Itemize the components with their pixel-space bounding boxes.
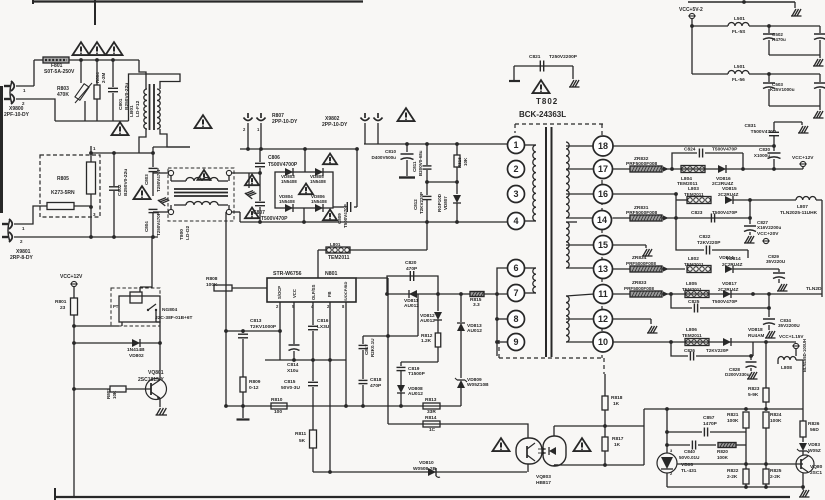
svg-text:1470P: 1470P bbox=[703, 421, 718, 427]
svg-text:T1500P: T1500P bbox=[408, 371, 426, 377]
svg-text:C857: C857 bbox=[703, 415, 715, 421]
svg-text:TLN2D: TLN2D bbox=[806, 286, 822, 292]
svg-text:D400V500u: D400V500u bbox=[371, 155, 396, 160]
svg-text:100K: 100K bbox=[717, 455, 729, 460]
svg-text:C818: C818 bbox=[370, 377, 382, 383]
svg-text:2C2RU4Z: 2C2RU4Z bbox=[722, 262, 743, 267]
svg-text:PRF5000F008: PRF5000F008 bbox=[626, 161, 658, 167]
svg-text:5-9K: 5-9K bbox=[748, 392, 759, 398]
svg-text:C803: C803 bbox=[144, 174, 149, 185]
svg-text:23: 23 bbox=[60, 305, 66, 311]
svg-text:1: 1 bbox=[513, 140, 518, 150]
svg-text:C812: C812 bbox=[413, 199, 418, 210]
svg-text:HB817: HB817 bbox=[536, 480, 551, 486]
svg-text:C806: C806 bbox=[268, 155, 280, 161]
svg-text:T2KV220P: T2KV220P bbox=[697, 240, 721, 246]
svg-text:0-12: 0-12 bbox=[249, 385, 259, 391]
svg-text:TEM2011: TEM2011 bbox=[682, 333, 702, 338]
svg-text:VD83: VD83 bbox=[808, 442, 820, 448]
svg-text:RGP10D: RGP10D bbox=[437, 193, 442, 212]
svg-text:100K: 100K bbox=[727, 418, 739, 424]
svg-text:6: 6 bbox=[513, 263, 518, 273]
svg-text:LD-D2: LD-D2 bbox=[185, 226, 191, 240]
svg-text:14: 14 bbox=[597, 215, 607, 225]
svg-text:1K: 1K bbox=[614, 442, 621, 448]
svg-text:2C2RU4Z: 2C2RU4Z bbox=[718, 287, 739, 292]
svg-text:C821: C821 bbox=[529, 54, 541, 60]
svg-text:R814: R814 bbox=[425, 415, 437, 421]
svg-text:2-2K: 2-2K bbox=[727, 474, 738, 480]
svg-text:VCC+12V: VCC+12V bbox=[60, 274, 83, 280]
svg-text:T800: T800 bbox=[179, 229, 185, 240]
svg-text:R805: R805 bbox=[57, 176, 69, 182]
svg-text:TEM2011: TEM2011 bbox=[682, 287, 702, 292]
svg-text:56D: 56D bbox=[810, 427, 819, 433]
svg-text:W05Z10B: W05Z10B bbox=[467, 382, 489, 388]
svg-text:4: 4 bbox=[513, 216, 518, 226]
svg-text:R810: R810 bbox=[271, 397, 283, 403]
svg-text:W0508-2B: W0508-2B bbox=[413, 466, 436, 472]
svg-text:T2KV1000P: T2KV1000P bbox=[250, 324, 277, 330]
svg-text:VCC+20V: VCC+20V bbox=[757, 231, 779, 237]
svg-text:T500V470P: T500V470P bbox=[343, 204, 348, 228]
svg-text:FB: FB bbox=[327, 291, 332, 297]
svg-text:L801: L801 bbox=[330, 242, 341, 247]
svg-text:K273-5RN: K273-5RN bbox=[51, 190, 75, 196]
svg-text:2C2RU4Z: 2C2RU4Z bbox=[718, 192, 739, 197]
svg-text:50V0-3U: 50V0-3U bbox=[281, 385, 300, 391]
svg-text:R818: R818 bbox=[611, 395, 623, 401]
svg-text:L807: L807 bbox=[797, 204, 808, 210]
svg-text:VCC+5V-2: VCC+5V-2 bbox=[679, 7, 703, 13]
svg-text:T250V470P: T250V470P bbox=[156, 168, 161, 192]
svg-text:L808: L808 bbox=[781, 365, 792, 371]
svg-text:C826: C826 bbox=[684, 348, 695, 353]
svg-text:X16V2200u: X16V2200u bbox=[757, 225, 781, 230]
svg-text:R820: R820 bbox=[717, 449, 728, 454]
svg-text:T250V2200P: T250V2200P bbox=[549, 54, 578, 60]
svg-text:OLP/SS: OLP/SS bbox=[311, 284, 316, 300]
svg-text:16: 16 bbox=[598, 189, 608, 199]
svg-text:470K: 470K bbox=[57, 92, 69, 98]
svg-text:LB01: LB01 bbox=[129, 105, 135, 117]
svg-text:K470u: K470u bbox=[772, 37, 786, 42]
svg-text:K25V1000u: K25V1000u bbox=[770, 87, 795, 92]
svg-text:C801: C801 bbox=[118, 98, 124, 110]
svg-text:R823: R823 bbox=[748, 386, 760, 392]
svg-text:NG804: NG804 bbox=[162, 307, 178, 313]
svg-text:T802: T802 bbox=[536, 97, 558, 106]
svg-text:FL-5S: FL-5S bbox=[732, 29, 746, 35]
svg-text:T2KV220P: T2KV220P bbox=[419, 192, 424, 214]
svg-text:470P: 470P bbox=[406, 266, 418, 272]
svg-text:R808: R808 bbox=[206, 276, 218, 282]
svg-text:T2KV220P: T2KV220P bbox=[706, 348, 728, 353]
svg-text:VCC+1.15V: VCC+1.15V bbox=[779, 334, 804, 339]
svg-text:13: 13 bbox=[598, 264, 608, 274]
svg-text:R817: R817 bbox=[612, 436, 624, 442]
svg-text:R825: R825 bbox=[770, 468, 782, 474]
svg-text:T500V470P: T500V470P bbox=[261, 216, 288, 222]
svg-text:T250V470P: T250V470P bbox=[156, 212, 161, 236]
svg-text:C830: C830 bbox=[759, 147, 770, 152]
svg-text:1K: 1K bbox=[613, 401, 620, 407]
svg-text:10K: 10K bbox=[463, 157, 468, 166]
svg-text:10K: 10K bbox=[112, 390, 117, 399]
svg-text:11: 11 bbox=[598, 289, 608, 299]
svg-text:S/OCP/BD: S/OCP/BD bbox=[343, 282, 348, 301]
svg-text:B250V0-22u: B250V0-22u bbox=[123, 169, 129, 196]
svg-text:T500V470P: T500V470P bbox=[712, 299, 738, 305]
svg-text:VD802: VD802 bbox=[129, 353, 144, 359]
svg-text:T500V4700P: T500V4700P bbox=[268, 162, 298, 168]
svg-text:18: 18 bbox=[598, 141, 608, 151]
svg-text:TEM2011: TEM2011 bbox=[684, 192, 704, 197]
svg-text:R801: R801 bbox=[55, 299, 67, 305]
svg-text:10: 10 bbox=[598, 337, 608, 347]
svg-text:J2C-38F-01B+6T: J2C-38F-01B+6T bbox=[155, 315, 193, 321]
svg-text:2SC1: 2SC1 bbox=[810, 470, 822, 476]
svg-text:PRF5000F008: PRF5000F008 bbox=[626, 261, 656, 266]
svg-text:PT: PT bbox=[113, 304, 119, 309]
svg-text:C823: C823 bbox=[691, 210, 703, 216]
svg-text:R811: R811 bbox=[295, 431, 307, 437]
svg-text:C815: C815 bbox=[284, 379, 296, 385]
svg-text:R809: R809 bbox=[249, 379, 261, 385]
svg-text:C840: C840 bbox=[684, 449, 695, 454]
svg-text:R802: R802 bbox=[106, 388, 111, 399]
svg-text:3: 3 bbox=[513, 189, 518, 199]
svg-text:R804: R804 bbox=[95, 72, 100, 83]
svg-text:BLN155D-100UH: BLN155D-100UH bbox=[802, 339, 807, 372]
svg-text:RU4AM: RU4AM bbox=[748, 333, 765, 338]
svg-text:50V0.01U: 50V0.01U bbox=[679, 455, 700, 460]
svg-text:2: 2 bbox=[513, 164, 518, 174]
svg-text:R822: R822 bbox=[727, 468, 739, 474]
svg-text:X1000u: X1000u bbox=[754, 153, 770, 158]
svg-text:R2K0.1U: R2K0.1U bbox=[370, 338, 375, 357]
svg-text:FL-56: FL-56 bbox=[732, 77, 745, 83]
svg-text:8: 8 bbox=[513, 314, 518, 324]
svg-text:N801: N801 bbox=[325, 271, 338, 277]
svg-text:VCC: VCC bbox=[292, 289, 297, 298]
svg-text:1N414B: 1N414B bbox=[127, 347, 145, 353]
svg-text:1N5408: 1N5408 bbox=[279, 199, 295, 204]
svg-text:35V220U: 35V220U bbox=[766, 259, 786, 264]
svg-text:D200V330u: D200V330u bbox=[725, 372, 750, 377]
svg-text:2-2K: 2-2K bbox=[770, 474, 781, 480]
svg-text:VB08: VB08 bbox=[681, 462, 693, 468]
svg-text:1.2K: 1.2K bbox=[421, 338, 432, 344]
svg-text:R826: R826 bbox=[808, 421, 820, 427]
svg-text:PRF5000F008: PRF5000F008 bbox=[624, 286, 654, 291]
svg-text:470P: 470P bbox=[370, 383, 382, 389]
svg-text:C802: C802 bbox=[117, 184, 123, 196]
svg-text:17: 17 bbox=[598, 164, 608, 174]
svg-text:5K: 5K bbox=[299, 438, 306, 444]
svg-text:T500V470P: T500V470P bbox=[712, 210, 738, 216]
svg-text:7: 7 bbox=[513, 288, 518, 298]
svg-text:LD-F12: LD-F12 bbox=[135, 100, 141, 117]
svg-text:AU012: AU012 bbox=[408, 391, 423, 397]
svg-text:C816: C816 bbox=[317, 318, 329, 324]
svg-text:2SC1815-Y: 2SC1815-Y bbox=[138, 377, 165, 383]
svg-text:C814: C814 bbox=[287, 362, 299, 368]
svg-text:R824: R824 bbox=[770, 412, 782, 418]
svg-text:PRF5000F008: PRF5000F008 bbox=[626, 210, 658, 216]
svg-text:VQ803: VQ803 bbox=[536, 474, 551, 480]
svg-text:VCC+12V: VCC+12V bbox=[792, 155, 814, 161]
svg-text:C822: C822 bbox=[699, 234, 711, 240]
svg-text:W05Z: W05Z bbox=[808, 448, 821, 454]
svg-text:C813: C813 bbox=[250, 318, 262, 324]
svg-text:1N5408: 1N5408 bbox=[281, 179, 297, 184]
svg-text:100K: 100K bbox=[206, 282, 218, 288]
svg-text:1N5408: 1N5408 bbox=[310, 179, 326, 184]
svg-text:BCK-24363L: BCK-24363L bbox=[519, 110, 566, 119]
svg-text:C831: C831 bbox=[745, 123, 757, 129]
svg-text:2RP-8-DY: 2RP-8-DY bbox=[10, 255, 33, 261]
svg-text:1C: 1C bbox=[429, 427, 436, 433]
svg-text:C824: C824 bbox=[684, 147, 696, 153]
svg-text:TLN2025-11UHK: TLN2025-11UHK bbox=[780, 210, 818, 216]
svg-text:S0T-5A-250V: S0T-5A-250V bbox=[44, 69, 75, 75]
svg-text:VQ801: VQ801 bbox=[148, 370, 164, 376]
svg-text:B200V0-68u: B200V0-68u bbox=[418, 150, 423, 176]
svg-text:L501: L501 bbox=[734, 16, 745, 22]
svg-text:C825: C825 bbox=[688, 299, 700, 305]
svg-text:X10u: X10u bbox=[287, 368, 299, 374]
svg-text:C810: C810 bbox=[385, 149, 396, 154]
svg-text:2PF-10-DY: 2PF-10-DY bbox=[4, 112, 30, 118]
svg-text:C804: C804 bbox=[144, 221, 149, 232]
svg-text:12: 12 bbox=[598, 314, 608, 324]
svg-text:L501: L501 bbox=[734, 64, 745, 70]
svg-text:TEM2011: TEM2011 bbox=[684, 262, 704, 267]
svg-text:VD807: VD807 bbox=[443, 196, 448, 210]
svg-text:33R: 33R bbox=[427, 409, 436, 415]
svg-text:100K: 100K bbox=[770, 418, 782, 424]
svg-text:C817: C817 bbox=[364, 344, 369, 355]
svg-text:VQ80: VQ80 bbox=[810, 464, 823, 470]
svg-text:35V2200U: 35V2200U bbox=[778, 323, 800, 328]
svg-text:TEM2011: TEM2011 bbox=[328, 255, 350, 261]
svg-text:T500V470P: T500V470P bbox=[712, 147, 738, 153]
svg-text:LX3U: LX3U bbox=[317, 324, 330, 330]
svg-text:VD810: VD810 bbox=[419, 460, 434, 466]
svg-text:3.3: 3.3 bbox=[473, 302, 480, 308]
svg-text:AU012: AU012 bbox=[404, 303, 419, 309]
svg-text:AU012: AU012 bbox=[420, 318, 435, 324]
svg-text:C820: C820 bbox=[405, 260, 417, 266]
svg-text:C811: C811 bbox=[412, 161, 417, 172]
svg-text:2PP-10-DY: 2PP-10-DY bbox=[322, 122, 348, 128]
svg-text:AU012: AU012 bbox=[467, 328, 482, 334]
svg-text:2-2M: 2-2M bbox=[101, 72, 106, 83]
svg-text:R816: R816 bbox=[457, 157, 462, 168]
svg-text:9: 9 bbox=[513, 337, 518, 347]
svg-text:1N5408: 1N5408 bbox=[311, 199, 327, 204]
svg-text:STR-W6756: STR-W6756 bbox=[273, 271, 302, 277]
svg-text:100: 100 bbox=[274, 409, 282, 415]
svg-text:TL-431: TL-431 bbox=[681, 468, 697, 474]
svg-text:S/OCP: S/OCP bbox=[277, 286, 282, 299]
svg-text:R821: R821 bbox=[727, 412, 739, 418]
svg-text:15: 15 bbox=[598, 240, 608, 250]
svg-text:R813: R813 bbox=[425, 397, 437, 403]
svg-text:2PP-10-DY: 2PP-10-DY bbox=[272, 119, 298, 125]
svg-text:T500V470P: T500V470P bbox=[751, 129, 777, 135]
